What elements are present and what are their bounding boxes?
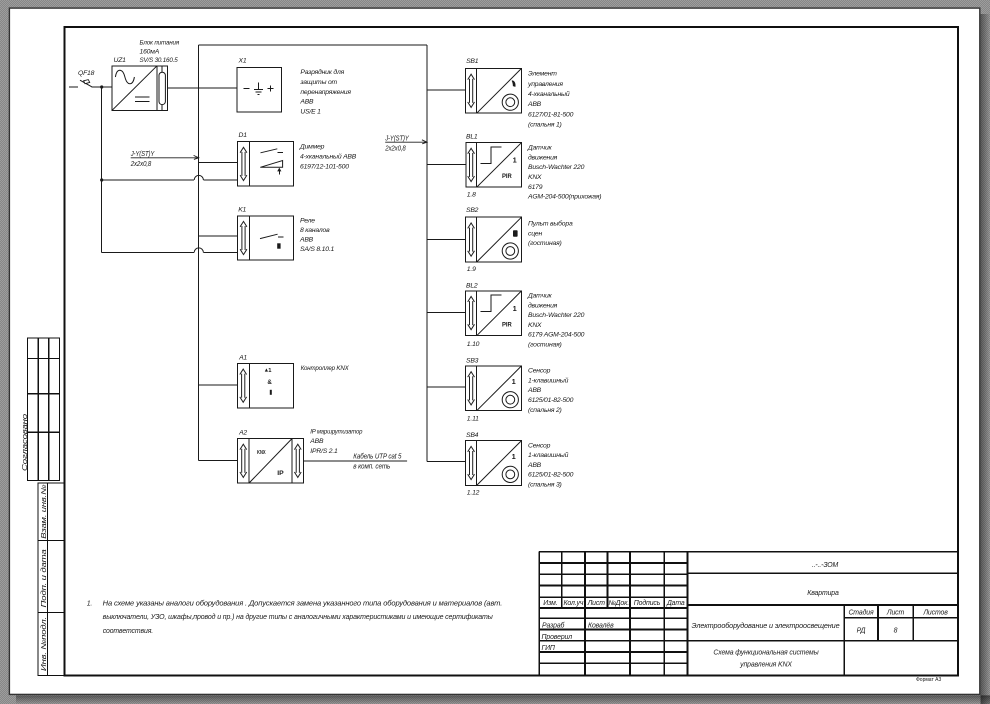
svg-text:1.11: 1.11 [467, 416, 479, 423]
svg-text:6179: 6179 [528, 184, 543, 191]
svg-text:Датчик: Датчик [527, 293, 553, 300]
svg-text:KNX: KNX [528, 322, 542, 329]
svg-text:Схема функциональная системы: Схема функциональная системы [713, 650, 818, 657]
svg-text:8 каналов: 8 каналов [300, 227, 330, 234]
svg-text:ABB: ABB [299, 236, 314, 243]
svg-text:движения: движения [528, 153, 558, 161]
svg-text:SB1: SB1 [466, 58, 479, 65]
svg-text:1: 1 [512, 452, 516, 461]
svg-text:SB3: SB3 [466, 357, 479, 364]
svg-text:6125/01-82-500: 6125/01-82-500 [528, 397, 574, 404]
svg-text:ABB: ABB [527, 101, 542, 108]
svg-text:Busch-Wachter 220: Busch-Wachter 220 [528, 312, 585, 319]
svg-text:Лист: Лист [587, 600, 606, 607]
svg-text:UZ1: UZ1 [114, 57, 127, 64]
svg-text:ABB: ABB [527, 462, 542, 469]
svg-text:Контроллер KNX: Контроллер KNX [301, 365, 350, 372]
svg-text:BL1: BL1 [466, 133, 478, 140]
svg-text:перенапряжения: перенапряжения [300, 89, 351, 96]
svg-text:KNX: KNX [528, 174, 542, 181]
svg-text:РД: РД [857, 628, 866, 635]
svg-text:1-клавишный: 1-клавишный [528, 376, 569, 384]
svg-text:6127/01-81-500: 6127/01-81-500 [528, 111, 574, 118]
svg-text:Сенсор: Сенсор [528, 442, 551, 449]
svg-text:BL2: BL2 [466, 283, 478, 290]
svg-text:Разрядник для: Разрядник для [300, 68, 344, 76]
svg-text:1.10: 1.10 [467, 341, 480, 348]
svg-text:SB4: SB4 [466, 432, 479, 439]
svg-text:Сенсор: Сенсор [528, 368, 551, 375]
svg-text:Подп. и дата: Подп. и дата [40, 549, 48, 607]
svg-text:Разраб: Разраб [542, 622, 566, 630]
svg-text:8: 8 [894, 628, 898, 635]
svg-text:D1: D1 [239, 132, 248, 139]
svg-text:Лист: Лист [886, 609, 905, 616]
svg-text:соответствия.: соответствия. [103, 628, 154, 635]
svg-text:1: 1 [512, 377, 516, 386]
svg-text:SA/S 8.10.1: SA/S 8.10.1 [300, 246, 334, 253]
svg-text:K1: K1 [238, 207, 246, 214]
svg-text:сцен: сцен [528, 230, 542, 237]
svg-text:SV/S 30.160.5: SV/S 30.160.5 [140, 57, 178, 64]
svg-text:Подпись: Подпись [634, 599, 661, 607]
svg-text:На схеме указаны аналоги обору: На схеме указаны аналоги оборудования . … [103, 600, 503, 608]
svg-text:QF18: QF18 [78, 70, 95, 77]
svg-text:Ковалёв: Ковалёв [588, 623, 614, 630]
svg-text:4-хканальный: 4-хканальный [528, 90, 570, 98]
svg-text:Электрооборудование и электроо: Электрооборудование и электроосвещение [692, 622, 840, 630]
svg-text:..-..-ЗОМ: ..-..-ЗОМ [812, 562, 839, 569]
svg-text:в комп. сеть: в комп. сеть [353, 463, 390, 470]
svg-text:(спальня 1): (спальня 1) [528, 122, 562, 129]
svg-text:A2: A2 [238, 430, 247, 437]
svg-text:1.8: 1.8 [467, 191, 476, 198]
svg-text:Блок питания: Блок питания [140, 40, 180, 47]
svg-text:Кабель UTP cat 5: Кабель UTP cat 5 [353, 453, 401, 461]
svg-text:Формат А3: Формат А3 [916, 677, 941, 683]
svg-text:(гостиная): (гостиная) [528, 342, 562, 349]
svg-text:&: & [267, 379, 272, 386]
svg-text:US/E 1: US/E 1 [300, 108, 321, 115]
svg-text:PIR: PIR [502, 173, 512, 180]
svg-text:2x2x0,8: 2x2x0,8 [384, 145, 406, 152]
svg-text:J-Y(ST)Y: J-Y(ST)Y [384, 136, 410, 143]
svg-text:защиты от: защиты от [299, 79, 337, 86]
svg-text:(гостиная): (гостиная) [528, 240, 562, 247]
svg-text:1-клавишный: 1-клавишный [528, 451, 569, 459]
svg-text:1: 1 [513, 156, 517, 165]
svg-text:6197/12-101-500: 6197/12-101-500 [300, 164, 349, 171]
svg-text:(спальня 3): (спальня 3) [528, 482, 562, 489]
svg-text:Диммер: Диммер [299, 144, 325, 151]
svg-text:управления KNX: управления KNX [739, 661, 792, 668]
svg-text:PIR: PIR [502, 321, 512, 328]
svg-text:Согласовано: Согласовано [22, 414, 29, 471]
svg-text:IPR/S 2.1: IPR/S 2.1 [310, 448, 338, 455]
svg-text:4-хканальный ABB: 4-хканальный ABB [300, 153, 357, 161]
svg-text:Реле: Реле [300, 217, 315, 224]
svg-text:Кол.уч: Кол.уч [563, 600, 583, 607]
svg-text:X1: X1 [238, 57, 247, 64]
svg-text:6125/01-82-500: 6125/01-82-500 [528, 472, 574, 479]
svg-text:KNX: KNX [257, 450, 266, 456]
svg-text:выключатели, УЗО, шкафы,провод: выключатели, УЗО, шкафы,провод и пр.) на… [103, 613, 493, 621]
svg-text:Busch-Wachter 220: Busch-Wachter 220 [528, 164, 585, 171]
svg-text:№Док.: №Док. [608, 600, 629, 607]
svg-text:SB2: SB2 [466, 207, 479, 214]
svg-text:1.: 1. [87, 601, 93, 608]
svg-text:(спальня 2): (спальня 2) [528, 407, 562, 414]
svg-text:1.9: 1.9 [467, 266, 476, 273]
svg-text:Изм.: Изм. [543, 600, 557, 607]
svg-text:Проверил: Проверил [542, 634, 573, 641]
svg-text:Дата: Дата [666, 600, 685, 607]
svg-text:1: 1 [513, 304, 517, 313]
svg-text:IP маршрутизатор: IP маршрутизатор [310, 428, 362, 435]
svg-text:Стадия: Стадия [848, 608, 874, 616]
svg-text:160мА: 160мА [140, 48, 160, 55]
svg-text:ГИП: ГИП [542, 645, 555, 652]
svg-text:AGM-204-500(прихожая): AGM-204-500(прихожая) [527, 194, 601, 201]
svg-text:J-Y(ST)Y: J-Y(ST)Y [130, 151, 156, 158]
svg-text:IP: IP [277, 470, 284, 477]
svg-text:A1: A1 [238, 355, 247, 362]
svg-text:Пульт выбора: Пульт выбора [528, 220, 573, 228]
svg-text:ABB: ABB [299, 99, 314, 106]
svg-text:Элемент: Элемент [528, 71, 557, 78]
svg-text:Взам. инв.№: Взам. инв.№ [41, 484, 48, 539]
svg-text:движения: движения [528, 301, 558, 309]
svg-text:6179 AGM-204-500: 6179 AGM-204-500 [528, 332, 585, 339]
svg-text:Инв. №подл.: Инв. №подл. [40, 617, 48, 671]
svg-text:Датчик: Датчик [527, 145, 553, 152]
svg-text:ABB: ABB [527, 387, 542, 394]
svg-text:Квартира: Квартира [807, 590, 839, 597]
svg-text:управления: управления [527, 81, 563, 88]
svg-text:ABB: ABB [309, 438, 324, 445]
svg-text:Листов: Листов [922, 609, 948, 616]
svg-text:1.12: 1.12 [467, 489, 480, 496]
svg-text:2x2x0,8: 2x2x0,8 [130, 161, 152, 168]
